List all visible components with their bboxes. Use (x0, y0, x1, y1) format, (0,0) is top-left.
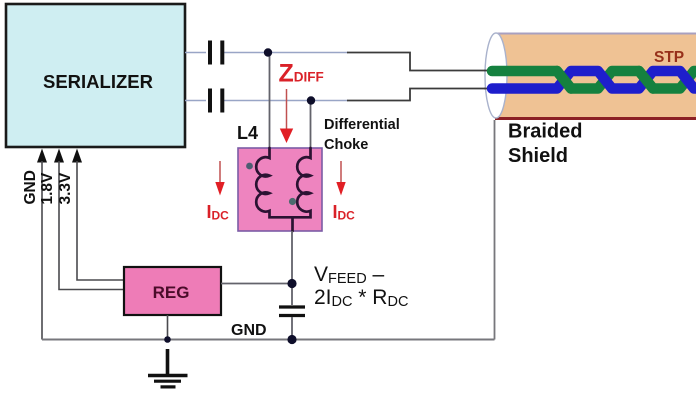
node A top junction (264, 48, 272, 56)
node feed junction (287, 279, 296, 288)
wire 3.3V supply (77, 161, 124, 280)
wire REG output (221, 283, 292, 285)
arrow I_DC left (215, 161, 224, 196)
wire REG ground (167, 315, 169, 340)
svg-text:3.3V: 3.3V (57, 172, 74, 205)
phasing dot left (246, 163, 253, 170)
arrow I_DC right (336, 161, 345, 196)
GND rail (42, 339, 495, 341)
svg-text:1.8V: 1.8V (39, 172, 56, 205)
node rail REG junction (164, 336, 171, 343)
cable end ellipse (485, 33, 507, 118)
wire connector taper to cable (347, 53, 491, 101)
wire stubs into cable (484, 71, 492, 89)
svg-text:GND: GND (231, 322, 267, 339)
cable jacket (495, 34, 696, 119)
choke L4 box (238, 148, 322, 231)
wire choke center tap (291, 231, 293, 305)
svg-text:SERIALIZER: SERIALIZER (43, 71, 153, 92)
capacitor C1 (210, 41, 222, 65)
svg-text:GND: GND (22, 170, 39, 204)
wire shield to ground rail (494, 120, 496, 340)
arrow Z_DIFF (280, 89, 293, 143)
wire top diff line (185, 52, 348, 54)
twisted pair green wire (492, 71, 696, 89)
regulator REG (124, 267, 221, 315)
wire choke right lead (310, 101, 312, 150)
svg-text:STP: STP (654, 49, 684, 66)
twisted pair green over-crossings (557, 71, 653, 89)
serializer U1 (6, 4, 185, 147)
power arrow 1.8V (54, 149, 64, 163)
node rail cap junction (287, 335, 296, 344)
wire cap to rail (291, 317, 293, 340)
choke right winding (293, 148, 311, 231)
capacitor C3 bypass (279, 307, 305, 316)
svg-text:REG: REG (153, 283, 190, 302)
phasing dot right (289, 198, 296, 205)
svg-text:Shield: Shield (508, 145, 568, 167)
power arrow 3.3V (72, 149, 82, 163)
twisted pair blue wire (492, 71, 696, 89)
svg-text:Braided: Braided (508, 121, 582, 143)
capacitor C2 (210, 89, 222, 113)
wire GND supply (41, 161, 43, 340)
svg-text:Choke: Choke (324, 137, 368, 153)
node B bottom junction (307, 96, 315, 104)
earth ground symbol (148, 349, 188, 387)
svg-text:L4: L4 (237, 123, 258, 143)
power arrow GND (37, 149, 47, 163)
wire bottom diff line (185, 100, 348, 102)
svg-text:Differential: Differential (324, 117, 400, 133)
wire choke left lead (269, 53, 271, 150)
choke left winding (256, 148, 292, 217)
wire 1.8V supply (59, 161, 124, 290)
